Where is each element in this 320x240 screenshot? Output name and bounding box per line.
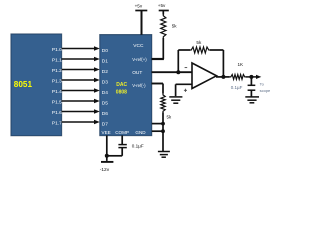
svg-text:P1.6: P1.6: [52, 110, 62, 116]
svg-text:V-ref(-): V-ref(-): [132, 83, 146, 88]
svg-text:P1.2: P1.2: [52, 68, 62, 74]
svg-text:P1.4: P1.4: [52, 89, 62, 95]
svg-text:0808: 0808: [116, 90, 127, 96]
svg-text:P1.5: P1.5: [52, 99, 62, 105]
svg-text:D3: D3: [102, 80, 108, 86]
svg-text:5k: 5k: [167, 114, 172, 119]
svg-text:VEE: VEE: [102, 130, 111, 135]
svg-text:D7: D7: [102, 122, 108, 128]
svg-text:P1.1: P1.1: [52, 57, 62, 63]
svg-text:D0: D0: [102, 48, 108, 54]
svg-text:D1: D1: [102, 59, 108, 65]
svg-text:5k: 5k: [172, 23, 178, 28]
svg-text:OUT: OUT: [132, 70, 142, 76]
svg-text:8051: 8051: [14, 80, 33, 89]
svg-text:-12v: -12v: [100, 167, 110, 173]
svg-text:P1.0: P1.0: [52, 47, 62, 53]
svg-text:0.1µF: 0.1µF: [132, 144, 144, 149]
svg-text:D4: D4: [102, 90, 108, 96]
svg-text:D2: D2: [102, 69, 108, 75]
svg-text:P1.7: P1.7: [52, 120, 62, 126]
svg-text:VCC: VCC: [133, 43, 144, 49]
svg-text:+5v: +5v: [158, 3, 166, 8]
svg-text:GND: GND: [135, 130, 146, 135]
svg-text:5k: 5k: [196, 40, 202, 45]
svg-text:1K: 1K: [238, 62, 245, 67]
svg-text:+5v: +5v: [135, 3, 143, 8]
svg-text:P1.3: P1.3: [52, 78, 62, 84]
svg-text:0.1µF: 0.1µF: [231, 85, 243, 90]
svg-text:V-ref(+): V-ref(+): [132, 57, 147, 62]
svg-text:To: To: [260, 81, 265, 86]
svg-text:D5: D5: [102, 101, 108, 107]
svg-text:DAC: DAC: [116, 82, 127, 88]
svg-text:D6: D6: [102, 111, 108, 117]
svg-text:COMP: COMP: [115, 130, 129, 135]
svg-text:scope: scope: [260, 88, 271, 93]
